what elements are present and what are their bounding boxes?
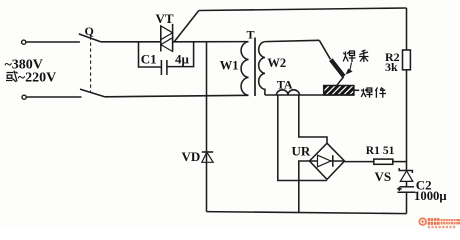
switch Q link dashed (90, 37, 92, 94)
electrode bar (welding rod) (331, 60, 344, 77)
triac VT left bar (160, 26, 162, 52)
wire node to VD branch (206, 42, 208, 212)
wire switch to triac (101, 41, 161, 43)
wire UR minus stub and down (299, 161, 310, 213)
workpiece hatched block (324, 86, 354, 96)
watermark text row 1 (428, 218, 460, 225)
label 焊件 (CJK drawn) (361, 87, 386, 98)
wire bottom input to switch (26, 96, 81, 98)
svg-text:UR: UR (292, 144, 311, 159)
wire C2 to bottom rail (406, 192, 408, 213)
top rail wire (199, 8, 407, 11)
zener VS triangle (400, 171, 413, 182)
bridge UR inner diode bar (332, 155, 334, 167)
right rail upper segment (406, 8, 408, 50)
capacitor C1 snubber box right side (167, 42, 194, 67)
svg-text:R1 51: R1 51 (366, 144, 395, 157)
capacitor C2 plus sign (397, 187, 401, 191)
capacitor C2 top plate (400, 186, 414, 188)
triac VT lower triangle (161, 38, 173, 52)
wire switch bottom to W1 bottom (105, 95, 249, 97)
switch Q bottom blade (80, 89, 105, 97)
diode VD cathode bar (202, 151, 213, 153)
dash to workpiece label (354, 89, 359, 91)
transformer W1 winding (241, 42, 248, 96)
bridge rectifier UR diamond (310, 143, 345, 179)
svg-text:VS: VS (375, 169, 392, 184)
bridge UR inner diode line (311, 160, 345, 162)
terminal top-left input (22, 40, 26, 44)
resistor R1 body (374, 159, 393, 164)
triac VT right bar (172, 24, 174, 51)
bottom rail wire (207, 212, 407, 214)
svg-text:VD: VD (182, 149, 201, 164)
wire diagonal to electrode (319, 40, 330, 59)
label 或~220V (CJK drawn) (6, 71, 18, 82)
wire triac to W1 (173, 41, 249, 43)
watermark logo circle (419, 218, 426, 225)
current transformer TA bumps (277, 90, 300, 95)
label 焊条 (CJK drawn) (343, 50, 368, 62)
resistor R2 body (403, 50, 411, 70)
wire top input to switch (26, 41, 80, 43)
wire TA right lead down (299, 95, 327, 143)
triac VT gate wire (174, 11, 199, 43)
svg-text:W2: W2 (267, 56, 286, 70)
svg-text:C1: C1 (141, 51, 157, 66)
svg-text:3k: 3k (385, 60, 398, 74)
svg-text:1000μ: 1000μ (414, 189, 447, 203)
svg-text:W1: W1 (220, 58, 239, 72)
capacitor C1 snubber box left side (139, 42, 162, 67)
wire zener to C2 (406, 181, 408, 186)
transformer W2 winding (259, 42, 265, 95)
terminal bottom-left input (22, 95, 26, 99)
transformer T core (254, 38, 256, 97)
wire TA left lead down (278, 95, 327, 181)
diode VD triangle (202, 152, 213, 162)
svg-text:VT: VT (156, 11, 174, 26)
svg-text:~220V: ~220V (18, 70, 56, 85)
watermark text row 2 (428, 226, 455, 228)
right rail mid segment (406, 70, 408, 171)
wire R1 to right rail (393, 161, 407, 163)
switch Q top blade (79, 34, 101, 42)
svg-text:T: T (247, 28, 255, 42)
bridge UR inner diode triangle (318, 155, 331, 167)
pointer arrow from label to electrode (350, 63, 352, 71)
capacitor C1 plates (160, 60, 162, 75)
wire TA primary (265, 94, 354, 96)
wire UR plus to R1 (345, 161, 374, 163)
triac VT upper triangle (161, 26, 173, 40)
svg-text:4μ: 4μ (175, 51, 190, 66)
electrode tip wire (337, 77, 344, 86)
zener VS bar with tabs (399, 168, 412, 173)
pointer arrowhead (346, 69, 353, 75)
wire W2 top to electrode (265, 40, 319, 41)
capacitor C2 bottom plate (398, 191, 416, 193)
svg-text:Q: Q (85, 24, 94, 38)
svg-text:TA: TA (277, 77, 293, 91)
